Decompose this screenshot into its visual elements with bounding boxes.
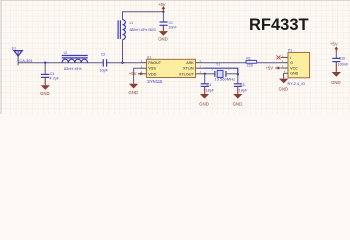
svg-text:18pF: 18pF xyxy=(206,89,215,93)
svg-text:XTLOUT: XTLOUT xyxy=(179,72,195,76)
svg-text:VCC: VCC xyxy=(290,66,298,70)
ground at module xyxy=(279,79,289,92)
connector P1 module xyxy=(281,48,310,85)
svg-text:GND: GND xyxy=(199,101,209,106)
pin stub ASK xyxy=(196,62,204,64)
pin stub XTLOUT xyxy=(196,73,204,75)
no-connect mark pin 1 xyxy=(276,55,280,59)
svg-text:GND: GND xyxy=(290,72,298,76)
node junction crystal left / C4 xyxy=(204,73,206,75)
wire XTLOUT to crystal xyxy=(203,73,211,75)
svg-text:C10: C10 xyxy=(339,56,345,60)
ground under C4 xyxy=(199,86,209,106)
pin stub 4 GND xyxy=(284,72,288,74)
pin stub 2 O xyxy=(281,62,288,64)
svg-text:L2: L2 xyxy=(64,51,68,55)
sheet border top xyxy=(0,0,350,2)
svg-text:U1: U1 xyxy=(147,56,151,60)
capacitor C3 xyxy=(41,63,60,81)
pin stub VDD xyxy=(140,73,147,75)
antenna E1 xyxy=(12,47,22,66)
power port +5V at VDD xyxy=(129,71,144,76)
svg-text:220: 220 xyxy=(247,64,253,68)
svg-text:100nF: 100nF xyxy=(338,62,349,66)
svg-text:+5V: +5V xyxy=(158,2,166,7)
pin stub XTLIN xyxy=(196,67,204,69)
wire L1 bottom to rail xyxy=(122,40,124,63)
capacitor C1 xyxy=(160,12,178,30)
wire module GND pin down xyxy=(283,73,285,78)
capacitor C5 xyxy=(234,74,248,92)
svg-text:GND: GND xyxy=(279,87,289,92)
sheet border left xyxy=(0,0,2,114)
svg-text:I: I xyxy=(290,56,291,60)
pin stub 3 VCC xyxy=(281,67,288,69)
sheet background xyxy=(0,0,350,114)
wire L1 top to +5V node xyxy=(123,12,164,20)
wire ASK to R1 xyxy=(203,62,246,64)
ground under C1 xyxy=(158,26,168,42)
svg-text:VDD: VDD xyxy=(148,72,156,76)
ground at VSS xyxy=(128,84,138,95)
node junction at C3 tap xyxy=(44,62,46,64)
node junction top +5V xyxy=(162,11,164,13)
svg-text:RY-2.4_ID: RY-2.4_ID xyxy=(288,81,306,86)
ground under C5 xyxy=(233,86,243,106)
power port +5V at C10 xyxy=(330,42,338,53)
svg-text:10nF: 10nF xyxy=(168,25,177,29)
pin stub VSS xyxy=(140,67,147,69)
svg-text:Y1: Y1 xyxy=(216,63,220,67)
svg-text:O: O xyxy=(290,61,293,65)
svg-text:C4: C4 xyxy=(207,83,211,87)
svg-text:C5: C5 xyxy=(240,83,244,87)
svg-text:C1: C1 xyxy=(169,21,173,25)
svg-text:GND: GND xyxy=(128,90,138,95)
svg-text:GND: GND xyxy=(233,101,243,106)
svg-text:82nH ±5%: 82nH ±5% xyxy=(64,67,82,71)
power port +5V at module VCC xyxy=(266,65,281,70)
pin stub PAOUT xyxy=(140,62,147,64)
svg-text:GND: GND xyxy=(40,91,50,96)
wire R1 to module xyxy=(257,62,281,64)
svg-text:4.7pF: 4.7pF xyxy=(50,76,60,80)
node junction at L1 tap xyxy=(121,62,123,64)
svg-text:R1: R1 xyxy=(246,56,250,60)
svg-text:SYN115: SYN115 xyxy=(147,79,163,84)
svg-text:680nH ±5% 0603: 680nH ±5% 0603 xyxy=(130,28,156,32)
ground under C3 xyxy=(40,78,50,96)
capacitor C4 xyxy=(201,74,215,93)
wire VSS to ground xyxy=(134,68,140,84)
svg-text:L1: L1 xyxy=(130,21,134,25)
svg-text:C3: C3 xyxy=(50,72,54,76)
wire XTLIN loop xyxy=(203,68,238,74)
pin stub 1 I xyxy=(281,56,288,58)
svg-text:ASK: ASK xyxy=(186,61,194,65)
svg-text:VSS: VSS xyxy=(148,67,156,71)
svg-text:+5V: +5V xyxy=(330,42,338,47)
node junction crystal right xyxy=(237,73,239,75)
crystal Y1 13.560MHz xyxy=(211,63,238,82)
svg-text:13.560MHz: 13.560MHz xyxy=(215,77,235,82)
svg-text:+5V: +5V xyxy=(129,71,137,76)
svg-text:PAOUT: PAOUT xyxy=(148,61,161,65)
inductor L2 xyxy=(62,51,88,71)
svg-text:GND: GND xyxy=(158,37,168,42)
op IC U1 SYN115 xyxy=(140,56,204,84)
svg-text:18pF: 18pF xyxy=(239,89,248,93)
svg-text:RF433T: RF433T xyxy=(249,16,309,34)
capacitor C2 xyxy=(100,53,109,73)
svg-text:+5V: +5V xyxy=(266,65,274,70)
power port +5V top xyxy=(158,2,166,12)
svg-text:GND: GND xyxy=(331,80,341,85)
resistor R1 xyxy=(246,56,257,67)
ground under C10 xyxy=(331,62,341,85)
svg-text:XTLIN: XTLIN xyxy=(183,67,194,71)
inductor L1 xyxy=(118,20,156,40)
svg-text:P1: P1 xyxy=(288,48,292,52)
wire antenna to PAOUT rail xyxy=(18,62,140,64)
capacitor C10 xyxy=(332,52,349,66)
svg-text:10pF: 10pF xyxy=(100,68,109,72)
svg-text:C2: C2 xyxy=(101,53,105,57)
svg-text:E1: E1 xyxy=(12,47,16,51)
